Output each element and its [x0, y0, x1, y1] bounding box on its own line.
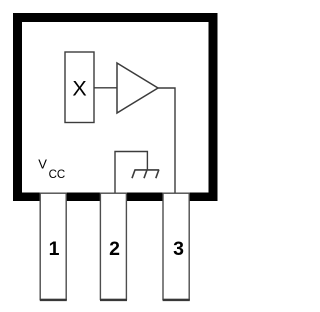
- wire: amplifier output to pin 3: [158, 88, 175, 193]
- pin 2 lead: [100, 193, 127, 300]
- package U1 body outline (thick black frame): [13, 13, 218, 201]
- pin 1 lead: [40, 193, 67, 300]
- svg-text:3: 3: [173, 238, 184, 260]
- wire: pin 2 up and over to ground: [115, 152, 147, 193]
- svg-text:V: V: [38, 157, 47, 172]
- wire: X box output to amplifier input: [94, 87, 117, 89]
- svg-text:CC: CC: [49, 169, 66, 181]
- svg-text:1: 1: [49, 238, 60, 260]
- multiplier block X (box): [65, 52, 94, 123]
- net label VCC: [38, 157, 65, 182]
- svg-text:2: 2: [109, 238, 120, 260]
- pin 3 lead: [163, 193, 190, 300]
- svg-text:X: X: [72, 76, 86, 100]
- ground symbol: [132, 170, 159, 178]
- op-amp A1 (amplifier triangle): [117, 63, 158, 113]
